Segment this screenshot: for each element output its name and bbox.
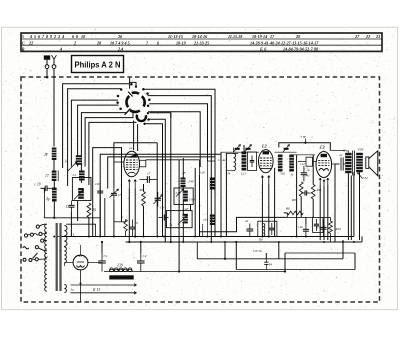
wire loop a: [63, 84, 130, 168]
svg-text:22: 22: [365, 34, 370, 39]
svg-text:16: 16: [135, 221, 139, 225]
wire long vertical 179.1: [178, 160, 180, 273]
transformer rectifier filament winding: [45, 247, 67, 263]
svg-text:5: 5: [22, 34, 24, 39]
svg-text:14-28-9-41-40-24-12-27-13-15-1: 14-28-9-41-40-24-12-27-13-15-16-14-17: [250, 40, 319, 45]
capacitor C12: [300, 162, 307, 182]
svg-text:13: 13: [71, 234, 75, 238]
svg-text:F. 6: F. 6: [260, 46, 267, 51]
svg-text:c12: c12: [300, 162, 305, 166]
svg-text:1a: 1a: [129, 146, 133, 150]
wire y218 link: [44, 193, 100, 218]
svg-text:2: 2: [53, 34, 56, 39]
wire IF1 tops: [221, 148, 259, 153]
wire V1 heaters to bus: [128, 189, 136, 244]
svg-text:10 7 4 9 4 5: 10 7 4 9 4 5: [110, 40, 130, 45]
resistor R5: [139, 184, 146, 237]
svg-text:18-14-16: 18-14-16: [192, 34, 208, 39]
RF coil 14: [65, 155, 82, 171]
resistor R8: [291, 182, 303, 218]
transformer core: [56, 223, 62, 291]
V2 cathode arrows: [261, 176, 270, 185]
svg-text:15: 15: [317, 226, 321, 230]
svg-text:7a0: 7a0: [280, 172, 285, 176]
svg-text:C1g: C1g: [304, 168, 310, 172]
coil Jg: [46, 181, 57, 202]
speaker coil S1N: [356, 148, 364, 173]
tube V2 IF-detector: [259, 150, 274, 173]
bus wire y258.8: [197, 242, 343, 259]
trimmer C17: [110, 189, 122, 201]
antenna coil S16: [44, 148, 56, 161]
bus junction dots: [53, 236, 355, 244]
V3 lead arrows: [319, 178, 329, 186]
capacitor 16b: [129, 220, 138, 237]
label L3: [319, 145, 325, 150]
wire long vertical 162.5: [145, 124, 163, 237]
wire switch to grid loop: [130, 78, 137, 89]
svg-text:c18: c18: [95, 182, 100, 186]
wire vertical 221-226: [221, 152, 226, 236]
title box Philips A 2 N: [72, 56, 124, 73]
resistor R6 horizontal: [284, 207, 303, 215]
earth terminal E: [52, 55, 57, 68]
wire AVC return: [200, 213, 288, 232]
coil L1F: [199, 170, 215, 189]
svg-text:23: 23: [375, 34, 380, 39]
svg-text:C2: C2: [143, 254, 147, 258]
wire loop c: [71, 100, 118, 166]
V1 grid box: [114, 160, 199, 175]
RF coil L1: [72, 171, 85, 181]
IF coil right A: [278, 155, 285, 176]
padder box: [159, 207, 193, 228]
svg-text:8: 8: [46, 34, 48, 39]
bus wire y269.5: [236, 269, 355, 271]
wire switch to V1 grid: [133, 121, 135, 151]
svg-text:R: R: [22, 46, 25, 51]
resistor n heater dropper: [122, 215, 128, 237]
svg-text:c10F: c10F: [189, 198, 196, 202]
svg-text:42: 42: [245, 219, 249, 223]
svg-text:L2: L2: [261, 144, 267, 149]
bus wire y271.5 dial line: [104, 271, 285, 273]
svg-text:18-19-14: 18-19-14: [252, 34, 267, 39]
svg-text:7a: 7a: [169, 223, 173, 227]
svg-text:C14a: C14a: [218, 158, 226, 162]
wire wafer2 right corner a: [150, 113, 171, 118]
wire switch right to IF 3: [149, 104, 207, 161]
fuse 64: [264, 259, 272, 270]
wire RF column to bus: [71, 198, 125, 237]
svg-text:c4F: c4F: [184, 207, 189, 211]
capacitor C18: [95, 182, 103, 198]
wire AVC node: [287, 216, 313, 224]
mains plug and voltage selector: [23, 224, 47, 261]
transformer primary winding: [45, 224, 47, 291]
speaker: [366, 151, 378, 176]
svg-text:J 32: J 32: [362, 176, 368, 180]
transformer HT secondary: [64, 226, 74, 247]
dial lamp scale: [109, 268, 133, 280]
svg-text:c7: c7: [147, 172, 151, 176]
label L2: [261, 144, 267, 149]
label CN 5b: [253, 249, 262, 253]
wire long vertical 170.8: [170, 113, 172, 243]
output transformer S3a: [343, 149, 354, 176]
wire loop b: [68, 89, 122, 186]
svg-text:R10: R10: [335, 227, 342, 231]
svg-text:11-13-15: 11-13-15: [168, 34, 183, 39]
svg-text:K 13: K 13: [92, 288, 100, 292]
resistor R10: [324, 217, 342, 242]
svg-text:3: 3: [57, 34, 60, 39]
antenna terminal A: [44, 55, 50, 78]
svg-text:Jg: Jg: [46, 197, 50, 201]
label J32: [358, 173, 369, 181]
wire link 161: [208, 160, 216, 162]
svg-text:JF: JF: [44, 153, 49, 157]
svg-text:S1N: S1N: [358, 148, 365, 152]
svg-text:18-19: 18-19: [176, 40, 186, 45]
capacitor C16: [321, 220, 327, 237]
svg-text:8: 8: [76, 34, 78, 39]
svg-text:R8: R8: [291, 198, 296, 202]
svg-text:2.4: 2.4: [117, 46, 123, 51]
bus verticals right: [224, 237, 362, 273]
trimmer cap IF1: [233, 145, 241, 153]
wire IF2 tops and +JF feed: [275, 135, 331, 152]
wire loop h: [93, 148, 122, 237]
svg-text:R11: R11: [316, 188, 322, 192]
capacitor C5b: [298, 224, 309, 237]
wire rectifier connections: [64, 245, 102, 302]
grid stopper box: [298, 157, 317, 177]
dial drive arrows K13: [71, 284, 137, 294]
detector filter box: [258, 221, 277, 241]
svg-text:2: 2: [73, 40, 76, 45]
capacitor C2: [137, 241, 147, 272]
svg-text:L1: L1: [72, 173, 77, 177]
resistor R16: [44, 193, 100, 237]
svg-text:41: 41: [339, 153, 343, 157]
tube V1 ECH frequency changer: [124, 151, 140, 177]
wire earth terminal to antenna coil: [53, 69, 55, 147]
svg-text:c17: c17: [116, 193, 121, 197]
band switch S1 wafer: [125, 92, 145, 115]
capacitor C8: [245, 219, 253, 237]
svg-text:139: 139: [117, 264, 123, 268]
oscillator box L10: [174, 188, 196, 205]
svg-text:Philips A 2 N: Philips A 2 N: [75, 59, 121, 69]
svg-text:L10: L10: [175, 191, 181, 195]
bus wire y236.5: [56, 236, 354, 238]
svg-text:5: 5: [34, 34, 36, 39]
wire long vertical 165.3: [149, 119, 166, 242]
rectifier tube V4: [73, 255, 88, 270]
resistor R11: [311, 155, 322, 217]
wire loop f: [85, 112, 133, 167]
IF coil right B: [289, 155, 294, 177]
band switch S1 second wafer: [137, 112, 150, 125]
bus wire y253: [285, 252, 355, 254]
wire V2 leads down: [262, 168, 274, 237]
svg-text:CN 5b: CN 5b: [253, 249, 262, 253]
svg-text:13: 13: [66, 205, 70, 209]
svg-text:R5: R5: [139, 188, 144, 192]
svg-text:22: 22: [28, 40, 33, 45]
svg-text:R9: R9: [258, 238, 263, 242]
svg-text:11.15.18: 11.15.18: [228, 34, 242, 39]
damper box: [248, 152, 257, 171]
wire switch right to osc: [148, 112, 200, 167]
coil L1b: [204, 215, 216, 226]
label C14a: [218, 158, 226, 162]
capacitor C7: [140, 172, 158, 183]
svg-text:14-84-79-94-52-7-98: 14-84-79-94-52-7-98: [283, 46, 318, 51]
capacitor C1: [98, 241, 108, 272]
svg-text:L1J: L1J: [240, 172, 247, 176]
wire switch right to IF 2: [148, 96, 212, 161]
svg-text:J41: J41: [305, 174, 310, 178]
wire loop i: [100, 154, 221, 236]
capacitor C13: [301, 190, 310, 195]
IF coil J4 (loop style): [226, 153, 238, 175]
wire loop j: [108, 157, 215, 189]
wire loop k: [114, 143, 157, 237]
label 1a: [129, 146, 133, 150]
svg-text:16: 16: [93, 208, 97, 212]
svg-text:21-33-25: 21-33-25: [193, 40, 209, 45]
V1 cathode arrows: [128, 180, 136, 189]
top reference table: [21, 33, 382, 51]
IF coil L1J hatched: [240, 145, 247, 176]
IF trimmer right: [283, 145, 290, 153]
svg-text:R6: R6: [285, 207, 290, 211]
svg-text:c 19: c 19: [35, 183, 41, 187]
svg-text:L1F: L1F: [199, 170, 207, 174]
transformer dial lamp winding Ja: [64, 285, 74, 293]
svg-text:c1b: c1b: [298, 225, 303, 229]
wire output transformer leads: [330, 151, 359, 243]
svg-text:4: 4: [59, 46, 62, 51]
box C15: [313, 218, 323, 233]
wire osc verticals: [191, 161, 216, 242]
bus wire y242: [126, 241, 363, 243]
wire switch to V1 cap: [137, 124, 139, 151]
tone capacitor 41: [332, 153, 346, 171]
svg-text:C: C: [22, 40, 25, 45]
svg-text:28: 28: [96, 40, 101, 45]
coil 17 with core: [45, 160, 58, 181]
switch contact dots: [116, 83, 150, 110]
wire switch right to IF 1: [143, 89, 215, 161]
svg-text:9: 9: [50, 34, 52, 39]
trimmer cap IF2: [244, 145, 252, 153]
svg-text:4: 4: [29, 34, 32, 39]
RF box: [72, 178, 91, 201]
osc coil upper: [181, 178, 196, 188]
wire loop g: [89, 122, 137, 185]
wire loop e: [81, 113, 126, 183]
trimmer C9: [154, 192, 165, 210]
dashed chassis border: [21, 77, 380, 302]
wire loop d: [78, 105, 119, 166]
capacitor C19: [35, 183, 52, 194]
svg-text:Ja: Ja: [71, 288, 75, 292]
label JF osc: [182, 171, 187, 175]
padder capacitor 13: [66, 201, 75, 213]
wire V3 leads down: [320, 185, 328, 241]
svg-text:J4: J4: [227, 172, 231, 176]
label 139: [117, 264, 123, 268]
wire antenna coil down to bus: [53, 202, 55, 219]
svg-text:14: 14: [65, 160, 69, 164]
tube V3 output pentode: [316, 152, 332, 178]
svg-text:+JF: +JF: [300, 135, 307, 139]
wire vertical 183.3: [182, 158, 184, 242]
wire 296.6 vertical: [293, 155, 316, 237]
secondary box wires: [64, 224, 95, 266]
